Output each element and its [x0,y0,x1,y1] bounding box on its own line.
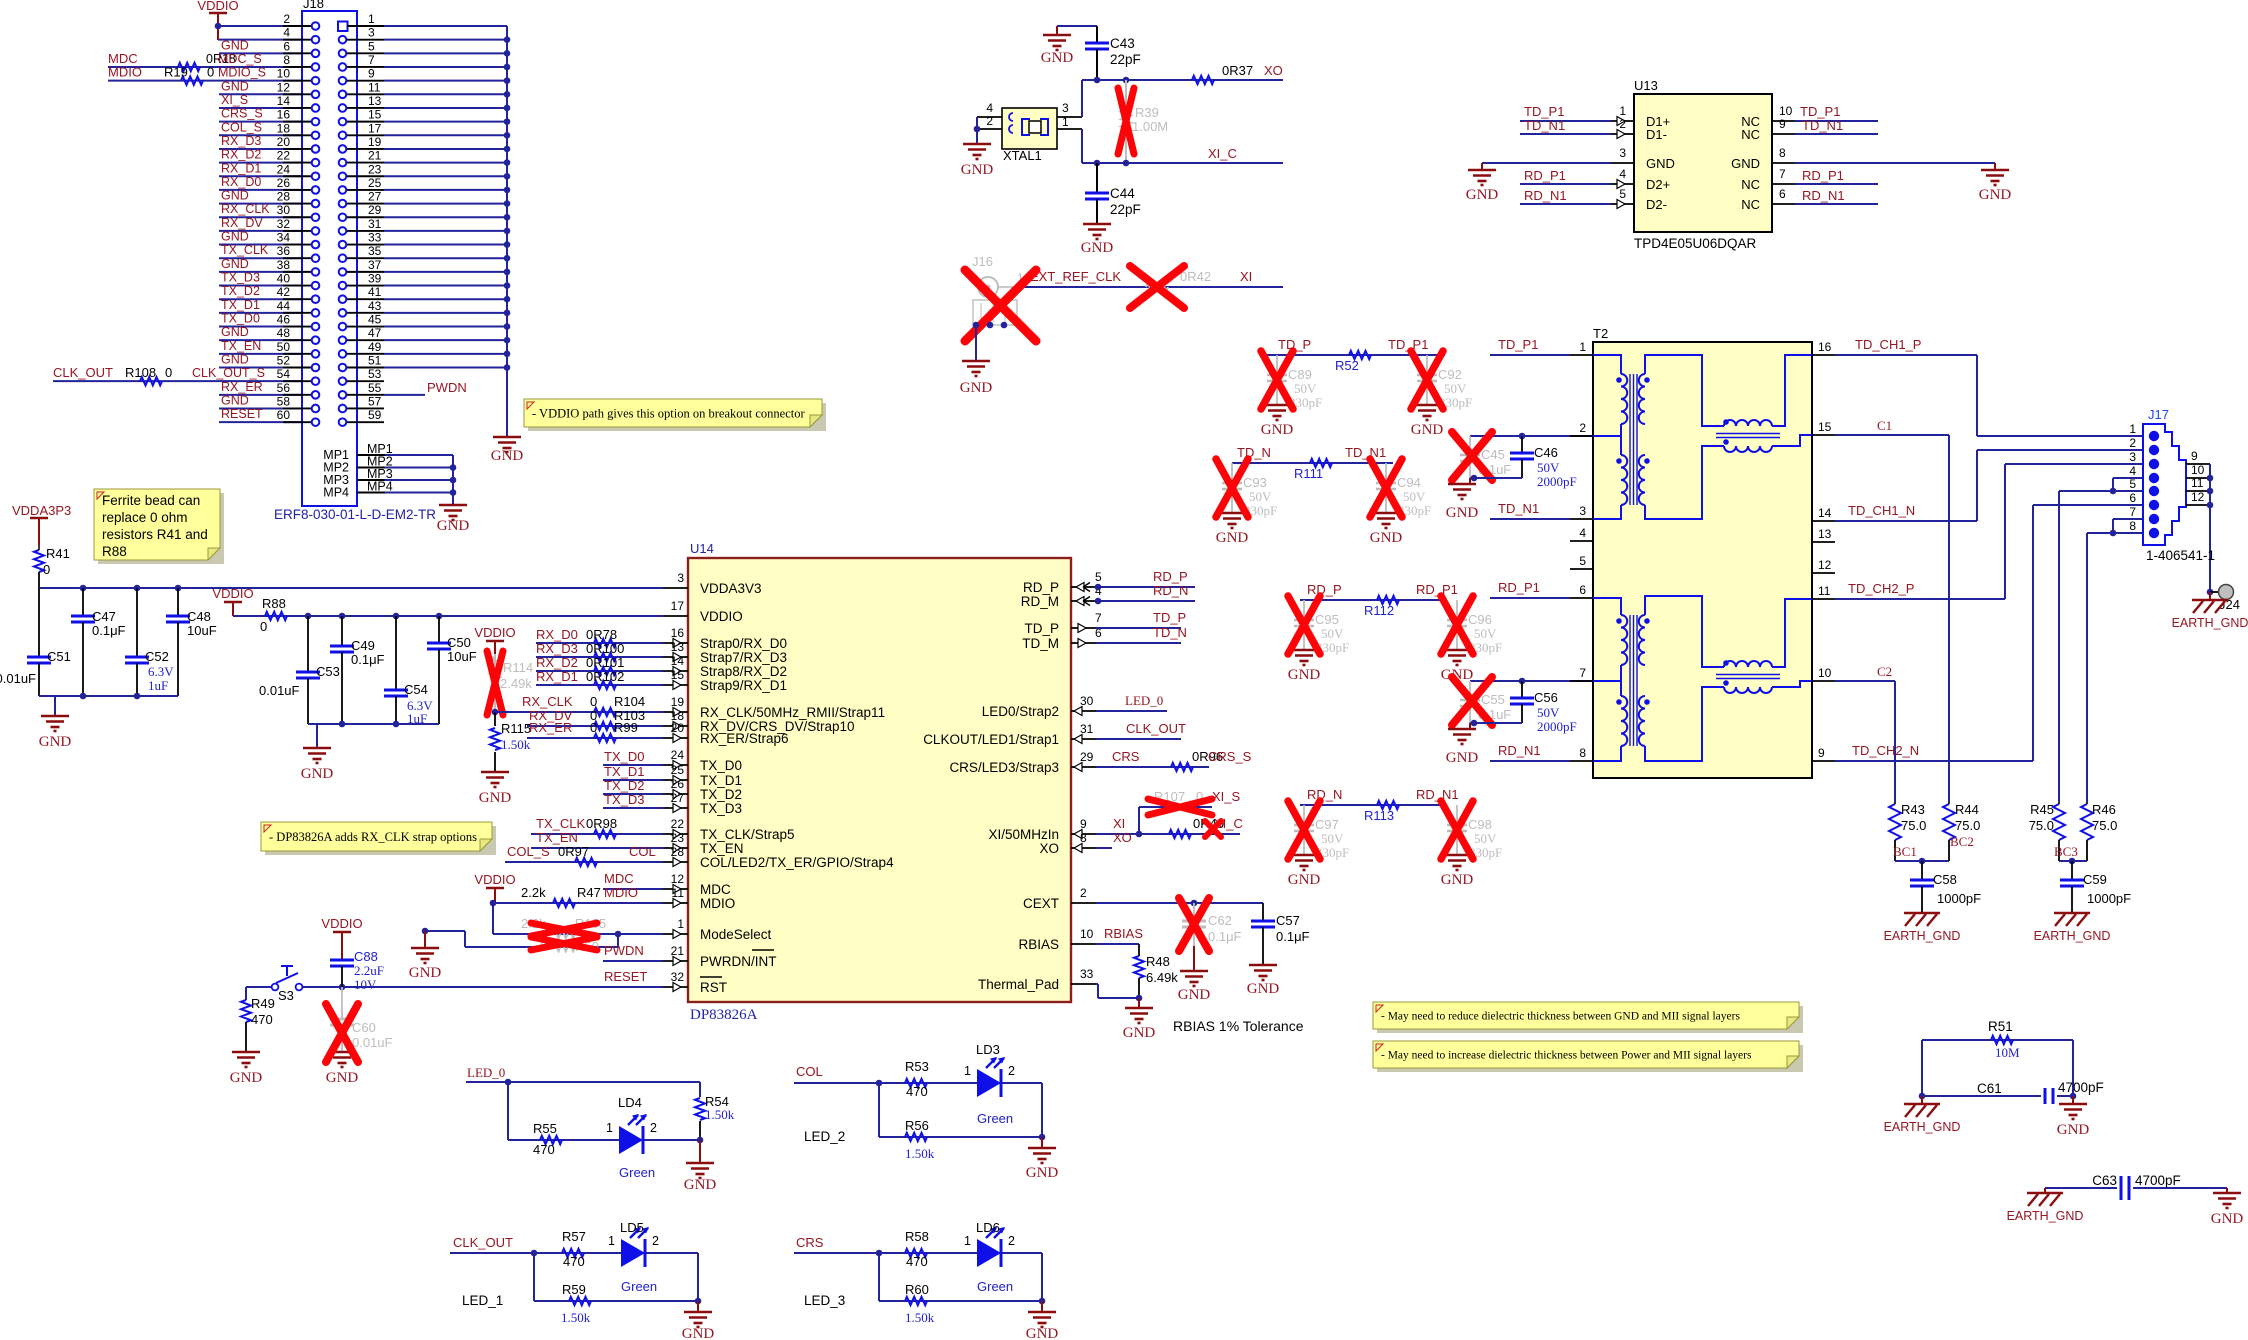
svg-text:TD_CH1_P: TD_CH1_P [1855,337,1921,352]
svg-text:11: 11 [672,886,685,900]
svg-text:50V: 50V [1321,626,1344,641]
svg-text:TD_CH1_N: TD_CH1_N [1848,503,1915,518]
svg-text:CRS: CRS [1112,749,1140,764]
svg-text:470: 470 [563,1254,585,1269]
svg-text:8: 8 [283,53,290,67]
svg-text:EARTH_GND: EARTH_GND [1884,929,1961,943]
svg-text:RX_ER: RX_ER [529,720,572,735]
svg-text:59: 59 [368,408,382,422]
svg-text:22pF: 22pF [1110,52,1141,67]
svg-text:C93: C93 [1243,475,1267,490]
svg-text:75.0: 75.0 [2029,818,2054,833]
svg-text:PWDN: PWDN [604,943,644,958]
svg-text:GND: GND [221,189,249,203]
svg-text:50V: 50V [1321,831,1344,846]
svg-text:CLK_OUT_S: CLK_OUT_S [192,366,265,380]
svg-text:6: 6 [1779,187,1786,201]
svg-text:MDC_S: MDC_S [218,52,262,66]
svg-text:RD_P: RD_P [1023,580,1059,595]
svg-text:48: 48 [277,326,291,340]
svg-text:C94: C94 [1397,475,1421,490]
svg-text:D2-: D2- [1646,197,1667,212]
svg-text:TX_D1: TX_D1 [700,773,742,788]
svg-text:TX_CLK: TX_CLK [536,816,585,831]
svg-text:RX_D2: RX_D2 [221,148,261,162]
svg-text:1: 1 [608,1234,615,1248]
svg-text:0.01uF: 0.01uF [259,683,300,698]
svg-text:TX_D3: TX_D3 [700,801,742,816]
svg-text:EARTH_GND: EARTH_GND [1884,1120,1961,1134]
svg-text:RX_ER: RX_ER [221,380,263,394]
svg-text:RD_P1: RD_P1 [1498,580,1540,595]
svg-text:28: 28 [277,190,291,204]
svg-text:TD_CH2_N: TD_CH2_N [1852,743,1919,758]
svg-text:D1-: D1- [1646,127,1667,142]
svg-text:TD_P: TD_P [1153,610,1186,625]
svg-text:11: 11 [1818,584,1831,598]
svg-text:4: 4 [1619,167,1626,181]
svg-text:GND: GND [1446,505,1479,521]
svg-text:0.1μF: 0.1μF [1208,929,1242,944]
svg-text:R48: R48 [1146,954,1170,969]
svg-text:2: 2 [1008,1064,1015,1078]
svg-text:COL_S: COL_S [507,844,550,859]
svg-text:4: 4 [283,26,290,40]
svg-text:3: 3 [368,26,375,40]
svg-text:1.50k: 1.50k [905,1310,935,1325]
svg-text:GND: GND [1446,750,1479,766]
svg-text:1: 1 [1062,115,1069,129]
svg-text:RBIAS: RBIAS [1018,937,1059,952]
svg-text:VDDIO: VDDIO [700,609,743,624]
svg-text:5: 5 [2129,477,2136,491]
svg-text:37: 37 [368,258,382,272]
svg-text:TX_D0: TX_D0 [604,749,644,764]
svg-text:56: 56 [277,381,291,395]
svg-text:5: 5 [368,39,375,53]
svg-text:R57: R57 [562,1229,586,1244]
svg-text:- May need to increase dielect: - May need to increase dielectric thickn… [1381,1050,1752,1062]
svg-text:R49: R49 [251,996,275,1011]
svg-text:TX_EN: TX_EN [536,830,578,845]
svg-text:12: 12 [2191,490,2205,504]
svg-text:- DP83826A adds RX_CLK strap o: - DP83826A adds RX_CLK strap options [269,830,477,844]
svg-text:R44: R44 [1955,802,1979,817]
svg-text:LD6: LD6 [976,1220,1000,1235]
svg-text:6.3V: 6.3V [148,664,174,679]
svg-text:GND: GND [1026,1165,1059,1181]
svg-text:T2: T2 [1593,326,1608,341]
svg-text:TD_CH2_P: TD_CH2_P [1848,581,1914,596]
svg-text:R47: R47 [577,885,601,900]
svg-text:44: 44 [277,299,291,313]
svg-text:TX_D2: TX_D2 [700,787,742,802]
svg-text:0.1μF: 0.1μF [1276,929,1310,944]
svg-text:6: 6 [283,39,290,53]
svg-text:C45: C45 [1481,447,1505,462]
svg-text:4: 4 [1579,526,1586,540]
svg-text:DP83826A: DP83826A [690,1007,758,1023]
svg-text:C60: C60 [352,1020,376,1035]
svg-text:RD_N: RD_N [1307,787,1342,802]
svg-text:XTAL1: XTAL1 [1003,148,1042,163]
svg-text:1: 1 [368,12,375,26]
svg-text:R55: R55 [533,1121,557,1136]
svg-text:0: 0 [590,720,597,735]
svg-text:RD_P: RD_P [1307,582,1342,597]
svg-text:1.50k: 1.50k [905,1146,935,1161]
svg-text:TX_EN: TX_EN [221,339,261,353]
svg-text:RD_N: RD_N [1153,583,1188,598]
svg-text:26: 26 [277,176,291,190]
svg-text:C95: C95 [1315,612,1339,627]
svg-text:1.50k: 1.50k [501,737,531,752]
svg-text:17: 17 [368,121,382,135]
svg-text:R111: R111 [1294,466,1323,481]
svg-text:COL: COL [796,1064,823,1079]
svg-text:LED_0: LED_0 [467,1065,505,1080]
svg-text:1: 1 [677,917,684,931]
svg-text:BC2: BC2 [1950,834,1974,849]
svg-text:10: 10 [1818,666,1832,680]
svg-text:R88: R88 [262,596,286,611]
svg-text:PWRDN/INT: PWRDN/INT [700,954,777,969]
svg-text:470: 470 [251,1012,273,1027]
svg-text:2: 2 [986,114,993,128]
svg-text:0R97: 0R97 [558,844,589,859]
svg-text:0R42: 0R42 [1180,269,1211,284]
svg-text:R113: R113 [1364,808,1394,823]
svg-text:0.1μF: 0.1μF [92,623,126,638]
svg-text:VDDIO: VDDIO [474,625,515,640]
svg-text:15: 15 [1818,420,1832,434]
svg-text:27: 27 [368,190,382,204]
svg-text:GND: GND [1979,187,2012,203]
svg-text:32: 32 [277,217,291,231]
svg-text:TX_D3: TX_D3 [221,271,260,285]
svg-text:R108: R108 [125,365,156,380]
svg-text:NC: NC [1741,197,1760,212]
svg-text:CRS_S: CRS_S [221,107,263,121]
svg-text:C62: C62 [1208,913,1232,928]
svg-text:2: 2 [2129,436,2136,450]
svg-text:TD_P1: TD_P1 [1524,104,1564,119]
svg-text:1: 1 [2129,422,2136,436]
svg-text:S3: S3 [278,988,294,1003]
svg-text:resistors R41 and: resistors R41 and [102,527,208,542]
svg-text:50V: 50V [1537,460,1560,475]
svg-text:XO: XO [1113,830,1132,845]
svg-text:EXT_REF_CLK: EXT_REF_CLK [1030,269,1121,284]
svg-text:MDC: MDC [700,882,731,897]
svg-text:GND: GND [39,734,72,750]
svg-text:75.0: 75.0 [2092,818,2117,833]
svg-text:2: 2 [1008,1234,1015,1248]
svg-text:GND: GND [221,230,249,244]
svg-text:0.01uF: 0.01uF [0,671,36,686]
svg-text:55: 55 [368,381,382,395]
svg-text:GND: GND [221,325,249,339]
svg-text:MP4: MP4 [323,486,349,500]
svg-text:GND: GND [1261,422,1294,438]
svg-text:CRS/LED3/Strap3: CRS/LED3/Strap3 [949,760,1059,775]
svg-text:C43: C43 [1110,36,1135,51]
svg-text:C50: C50 [447,635,471,650]
svg-text:1: 1 [1619,104,1626,118]
svg-text:BC1: BC1 [1893,844,1917,859]
svg-text:3: 3 [1619,146,1626,160]
svg-text:EARTH_GND: EARTH_GND [2034,929,2111,943]
svg-text:6: 6 [2129,491,2136,505]
svg-text:14: 14 [1818,506,1832,520]
svg-text:RX_D1: RX_D1 [536,669,578,684]
svg-text:52: 52 [277,354,291,368]
svg-text:R60: R60 [905,1282,929,1297]
svg-text:XO: XO [1264,63,1283,78]
svg-text:43: 43 [368,299,382,313]
svg-text:2.49k: 2.49k [500,676,532,691]
svg-text:10M: 10M [1995,1045,2020,1060]
svg-text:GND: GND [961,162,994,178]
svg-text:6.49k: 6.49k [1146,970,1178,985]
svg-text:1000pF: 1000pF [2087,891,2131,906]
svg-text:U13: U13 [1634,78,1658,93]
svg-text:10: 10 [1080,927,1094,941]
svg-text:2: 2 [1619,117,1626,131]
svg-text:16: 16 [1818,340,1832,354]
svg-text:TX_D0: TX_D0 [221,312,260,326]
svg-text:R58: R58 [905,1229,929,1244]
svg-text:ERF8-030-01-L-D-EM2-TR: ERF8-030-01-L-D-EM2-TR [274,507,436,522]
svg-text:2.2k: 2.2k [521,885,546,900]
svg-text:50V: 50V [1294,381,1317,396]
svg-text:C89: C89 [1288,367,1312,382]
svg-text:R59: R59 [562,1282,586,1297]
svg-text:Green: Green [619,1165,655,1180]
svg-text:GND: GND [221,38,249,52]
svg-text:GND: GND [1370,530,1403,546]
svg-text:C51: C51 [47,649,71,664]
svg-text:TD_P1: TD_P1 [1498,337,1538,352]
svg-text:23: 23 [368,162,382,176]
svg-text:14: 14 [277,94,291,108]
svg-text:XI/50MHzIn: XI/50MHzIn [988,827,1059,842]
svg-text:VDDA3P3: VDDA3P3 [12,503,71,518]
svg-text:VDDIO: VDDIO [321,916,362,931]
svg-text:10uF: 10uF [187,623,217,638]
svg-text:4: 4 [986,101,993,115]
svg-text:9: 9 [2191,449,2198,463]
svg-text:MP4: MP4 [367,480,393,494]
svg-text:C98: C98 [1468,817,1492,832]
svg-text:25: 25 [368,176,382,190]
svg-text:TX_D3: TX_D3 [604,792,644,807]
svg-text:8: 8 [2129,519,2136,533]
svg-text:EARTH_GND: EARTH_GND [2007,1209,2084,1223]
svg-text:8: 8 [1080,831,1087,845]
svg-text:8: 8 [1579,746,1586,760]
svg-text:0R101: 0R101 [586,655,624,670]
svg-text:21: 21 [368,149,382,163]
svg-text:RD_N1: RD_N1 [1524,188,1567,203]
svg-text:LED_2: LED_2 [804,1129,845,1144]
svg-text:LED_3: LED_3 [804,1293,845,1308]
svg-text:29: 29 [368,203,382,217]
svg-text:RD_N1: RD_N1 [1498,743,1541,758]
svg-text:470: 470 [906,1254,928,1269]
svg-text:COL: COL [629,844,656,859]
svg-text:10V: 10V [354,977,377,992]
svg-text:R52: R52 [1335,358,1359,373]
svg-text:1.00M: 1.00M [1132,119,1168,134]
svg-text:3: 3 [1062,101,1069,115]
svg-text:MDIO_S: MDIO_S [218,66,266,80]
svg-text:MDIO: MDIO [604,885,638,900]
svg-text:2: 2 [650,1121,657,1135]
svg-text:R51: R51 [1988,1019,2013,1034]
svg-text:TPD4E05U06DQAR: TPD4E05U06DQAR [1634,236,1757,251]
svg-text:50V: 50V [1403,489,1426,504]
svg-text:TD_N: TD_N [1153,625,1187,640]
svg-text:10: 10 [277,67,291,81]
svg-text:17: 17 [671,599,685,613]
svg-text:MDC: MDC [604,871,634,886]
svg-text:MDIO: MDIO [700,896,735,911]
svg-text:RD_N1: RD_N1 [1416,787,1459,802]
svg-text:12: 12 [277,80,291,94]
svg-text:60: 60 [277,408,291,422]
svg-text:GND: GND [221,393,249,407]
svg-text:9: 9 [1818,746,1825,760]
svg-text:51: 51 [368,354,382,368]
svg-text:R43: R43 [1901,802,1925,817]
svg-text:36: 36 [277,244,291,258]
svg-text:J17: J17 [2148,407,2169,422]
svg-text:C57: C57 [1276,913,1300,928]
svg-text:LD4: LD4 [618,1095,642,1110]
svg-text:470: 470 [533,1142,555,1157]
svg-text:GND: GND [437,518,470,534]
svg-text:MDIO: MDIO [108,65,142,80]
svg-text:16: 16 [277,108,291,122]
svg-text:R114: R114 [503,660,533,675]
svg-text:Thermal_Pad: Thermal_Pad [978,977,1059,992]
svg-text:19: 19 [368,135,382,149]
svg-text:15: 15 [368,108,382,122]
svg-text:J18: J18 [303,0,324,11]
svg-text:C92: C92 [1438,367,1462,382]
svg-text:46: 46 [277,313,291,327]
svg-text:50V: 50V [1474,831,1497,846]
svg-text:XI_C: XI_C [1208,146,1237,161]
svg-text:R45: R45 [2030,802,2054,817]
svg-text:13: 13 [1818,527,1832,541]
svg-text:NC: NC [1741,127,1760,142]
svg-text:RD_P1: RD_P1 [1802,168,1844,183]
svg-text:XI_S: XI_S [1212,789,1241,804]
svg-text:CRS_S: CRS_S [1208,749,1252,764]
svg-text:replace 0 ohm: replace 0 ohm [102,510,188,525]
svg-text:RX_DV: RX_DV [221,216,263,230]
svg-text:4700pF: 4700pF [2135,1173,2181,1188]
svg-text:BC3: BC3 [2054,844,2078,859]
svg-text:7: 7 [1095,611,1102,625]
svg-text:Strap9/RX_D1: Strap9/RX_D1 [700,678,787,693]
svg-text:Strap8/RX_D2: Strap8/RX_D2 [700,664,787,679]
svg-text:GND: GND [684,1177,717,1193]
svg-text:GND: GND [1466,187,1499,203]
svg-text:40: 40 [277,272,291,286]
svg-text:RX_D3: RX_D3 [536,641,578,656]
svg-text:RBIAS: RBIAS [1104,926,1143,941]
svg-text:RX_D3: RX_D3 [221,134,261,148]
svg-text:C49: C49 [351,638,375,653]
svg-text:58: 58 [277,394,291,408]
svg-text:1000pF: 1000pF [1937,891,1981,906]
svg-text:J16: J16 [972,254,993,269]
svg-text:GND: GND [1646,156,1675,171]
svg-text:47: 47 [368,326,382,340]
svg-text:RESET: RESET [221,407,263,421]
svg-text:D2+: D2+ [1646,177,1670,192]
svg-text:GND: GND [1081,240,1114,256]
svg-text:22: 22 [277,149,291,163]
svg-text:50V: 50V [1474,626,1497,641]
svg-text:4700pF: 4700pF [2058,1080,2104,1095]
svg-text:10: 10 [2191,463,2205,477]
svg-text:GND: GND [326,1070,359,1086]
svg-text:NC: NC [1741,177,1760,192]
svg-text:20: 20 [277,135,291,149]
svg-text:TD_N1: TD_N1 [1524,118,1565,133]
svg-text:R104: R104 [614,694,645,709]
svg-text:GND: GND [1041,50,1074,66]
svg-text:2.2uF: 2.2uF [354,963,384,978]
svg-text:0R102: 0R102 [586,669,624,684]
svg-text:31: 31 [368,217,382,231]
svg-text:GND: GND [2211,1211,2244,1227]
svg-text:Ferrite bead can: Ferrite bead can [102,493,200,508]
svg-text:RST: RST [700,980,727,995]
svg-text:33: 33 [1080,967,1094,981]
svg-text:C54: C54 [404,682,428,697]
svg-text:0R78: 0R78 [586,627,617,642]
svg-text:GND: GND [491,448,524,464]
svg-text:49: 49 [368,340,382,354]
svg-text:RESET: RESET [604,969,647,984]
svg-text:TX_EN: TX_EN [700,841,744,856]
svg-text:RD_M: RD_M [1021,594,1059,609]
svg-text:CEXT: CEXT [1023,896,1059,911]
svg-text:TD_N: TD_N [1237,445,1271,460]
svg-text:0.1μF: 0.1μF [351,652,385,667]
svg-text:13: 13 [368,94,382,108]
svg-text:2: 2 [283,12,290,26]
svg-text:18: 18 [277,121,291,135]
svg-text:3: 3 [2129,450,2136,464]
svg-text:C46: C46 [1534,445,1558,460]
svg-text:TD_P: TD_P [1024,621,1059,636]
svg-text:Green: Green [977,1279,1013,1294]
svg-text:R112: R112 [1364,603,1394,618]
svg-text:RX_D2: RX_D2 [536,655,578,670]
svg-text:TX_CLK: TX_CLK [221,243,269,257]
svg-text:41: 41 [368,285,382,299]
svg-text:GND: GND [221,257,249,271]
svg-text:2: 2 [1579,421,1586,435]
svg-text:C47: C47 [92,609,116,624]
svg-text:9: 9 [368,67,375,81]
